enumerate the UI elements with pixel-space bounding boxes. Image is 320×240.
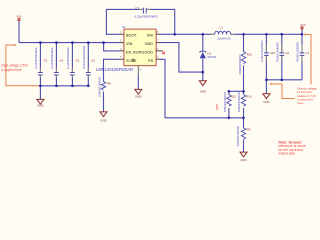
svg-text:Input voltage (15V): Input voltage (15V) bbox=[1, 64, 28, 68]
svg-text:VIN: VIN bbox=[126, 42, 133, 46]
svg-text:GND: GND bbox=[240, 158, 246, 162]
svg-text:C4: C4 bbox=[59, 58, 63, 62]
svg-text:4.99kΩ/1%/0603: 4.99kΩ/1%/0603 bbox=[238, 54, 242, 75]
svg-text:0.22uF/50V/0603: 0.22uF/50V/0603 bbox=[134, 15, 157, 19]
svg-text:is applied here: is applied here bbox=[1, 68, 22, 72]
svg-text:0.22uF/16V/0603: 0.22uF/16V/0603 bbox=[260, 40, 264, 62]
svg-text:U1: U1 bbox=[122, 25, 126, 29]
svg-text:0.01uF/100V/0603: 0.01uF/100V/0603 bbox=[82, 46, 86, 69]
svg-text:R11: R11 bbox=[247, 53, 252, 57]
svg-text:3V3: 3V3 bbox=[300, 23, 306, 27]
svg-text:C3: C3 bbox=[43, 58, 47, 62]
svg-text:100kΩ/1%/0603: 100kΩ/1%/0603 bbox=[98, 77, 102, 97]
svg-text:47uF/6.3V/0805: 47uF/6.3V/0805 bbox=[296, 42, 300, 62]
svg-text:GND: GND bbox=[135, 95, 141, 99]
svg-text:BOOT: BOOT bbox=[126, 34, 137, 38]
svg-text:C1: C1 bbox=[306, 51, 310, 55]
svg-text:LMR14010SPDDAR: LMR14010SPDDAR bbox=[96, 67, 133, 72]
svg-text:R8: R8 bbox=[107, 82, 111, 86]
svg-text:EN: EN bbox=[126, 50, 132, 54]
svg-text:GND: GND bbox=[145, 42, 154, 46]
svg-text:GND: GND bbox=[200, 90, 206, 94]
svg-text:VIN: VIN bbox=[16, 14, 21, 18]
svg-text:D1: D1 bbox=[208, 51, 212, 55]
svg-text:100kΩ/1%/0603: 100kΩ/1%/0603 bbox=[236, 126, 240, 146]
svg-text:47uF/6.3V/0805: 47uF/6.3V/0805 bbox=[275, 42, 279, 62]
svg-text:R10: R10 bbox=[246, 95, 252, 99]
svg-text:GND: GND bbox=[263, 100, 269, 104]
svg-text:180kΩ/1%/0603: 180kΩ/1%/0603 bbox=[223, 92, 227, 112]
svg-text:100kΩ/1%/0603: 100kΩ/1%/0603 bbox=[237, 92, 241, 112]
svg-text:here: here bbox=[297, 101, 303, 105]
svg-text:C6: C6 bbox=[91, 58, 95, 62]
svg-text:SS/PGOOD: SS/PGOOD bbox=[133, 50, 154, 54]
svg-text:22uH/4.2A: 22uH/4.2A bbox=[217, 37, 231, 41]
svg-text:FB: FB bbox=[148, 59, 153, 63]
svg-text:GND: GND bbox=[37, 104, 43, 108]
svg-text:SW: SW bbox=[147, 34, 154, 38]
svg-text:L1: L1 bbox=[220, 25, 224, 29]
svg-text:C5: C5 bbox=[75, 58, 79, 62]
svg-text:R9: R9 bbox=[247, 128, 251, 132]
svg-text:2.2uF/100V/1206: 2.2uF/100V/1206 bbox=[50, 47, 54, 69]
svg-text:0.1uF/100V/0603: 0.1uF/100V/0603 bbox=[66, 47, 70, 69]
svg-text:output side: output side bbox=[278, 151, 295, 155]
svg-text:GND: GND bbox=[100, 119, 106, 123]
svg-text:C2: C2 bbox=[285, 51, 289, 55]
svg-text:R12: R12 bbox=[231, 95, 237, 99]
svg-text:DNP: DNP bbox=[215, 104, 219, 110]
svg-text:C7: C7 bbox=[135, 6, 139, 10]
svg-text:SYNC: SYNC bbox=[126, 59, 137, 63]
svg-text:60V/2A: 60V/2A bbox=[208, 55, 217, 59]
svg-text:2.2uF/100V/1206: 2.2uF/100V/1206 bbox=[34, 47, 38, 69]
